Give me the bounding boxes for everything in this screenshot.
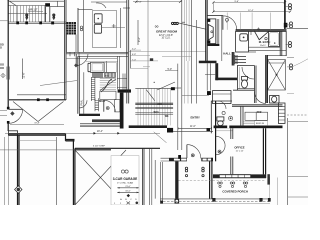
nook east line xyxy=(221,16,223,61)
wic shelves xyxy=(235,55,246,64)
fireplace trapezoid xyxy=(208,25,213,41)
chimney side lines down xyxy=(67,35,77,53)
left room west wall xyxy=(7,24,9,109)
ooo fixtures xyxy=(172,22,179,24)
hall door leaf top right xyxy=(222,16,224,30)
svg-text:BUILT-IN: BUILT-IN xyxy=(256,123,265,125)
hall top wall thick xyxy=(199,61,217,64)
west wall below door xyxy=(7,123,9,131)
hall south wall xyxy=(215,78,237,81)
sink 1 xyxy=(94,14,102,23)
kitchen island xyxy=(93,11,117,48)
dim ticks left of door xyxy=(0,110,7,115)
fireplace box xyxy=(207,19,215,44)
island right second line xyxy=(120,8,122,48)
bay2 inner line xyxy=(55,137,57,205)
powder toilet xyxy=(217,117,224,126)
powder room west walls xyxy=(210,101,212,133)
svg-text:7'-0": 7'-0" xyxy=(132,59,136,61)
dim extension verticals top right xyxy=(227,13,270,30)
laundry north wall xyxy=(232,105,283,107)
keynote diamond left edge xyxy=(1,73,6,78)
PAN label xyxy=(80,99,84,105)
entry door arc xyxy=(187,145,201,159)
locker ladder xyxy=(95,98,99,111)
linen shelf strip xyxy=(278,103,285,123)
wall between wc and closet xyxy=(266,55,268,103)
svg-text:9'-6": 9'-6" xyxy=(235,1,240,3)
svg-text:20'-4": 20'-4" xyxy=(97,131,103,133)
closet shelf lines right of hall wall xyxy=(131,50,159,68)
OO symbol xyxy=(121,170,124,173)
svg-text:ENTRY: ENTRY xyxy=(191,116,201,120)
vanity xyxy=(269,32,280,47)
left room south wall xyxy=(9,99,66,101)
office door keynote xyxy=(218,150,221,153)
svg-text:HALL: HALL xyxy=(223,51,231,55)
garage steps xyxy=(80,124,120,127)
laundry divider wall xyxy=(241,106,243,126)
small text right of pantry xyxy=(105,76,110,78)
porch roof dashed line xyxy=(179,179,266,181)
svg-text:W/D: W/D xyxy=(257,111,262,114)
stair south dark wall xyxy=(129,125,167,128)
pantry inner wall xyxy=(83,72,85,113)
svg-text:12'-4": 12'-4" xyxy=(248,10,254,12)
mud big door leaf xyxy=(103,100,105,112)
kitchen counter top edge xyxy=(78,9,92,11)
svg-text:22'-6": 22'-6" xyxy=(136,2,142,4)
vertical dim line in room xyxy=(22,59,24,80)
svg-text:OO: OO xyxy=(0,66,4,70)
svg-text:10' CLG.: 10' CLG. xyxy=(162,38,171,40)
thin line below door wall xyxy=(8,135,10,205)
top center dim line xyxy=(133,1,182,3)
keynote at door xyxy=(226,18,229,23)
kitchen west wall xyxy=(77,8,79,52)
kitchen right dim line xyxy=(147,0,149,88)
svg-text:11x12: 11x12 xyxy=(260,45,266,47)
leader to fireplace xyxy=(179,23,207,29)
right side dim lines xyxy=(287,118,289,205)
stair bottom posts xyxy=(16,21,54,24)
porch slab edge xyxy=(161,198,271,200)
stairs mid rails xyxy=(135,103,173,104)
powder/laundry south wall xyxy=(214,126,283,129)
wc west wall xyxy=(237,66,239,91)
svg-text:5'-2": 5'-2" xyxy=(132,49,136,51)
great room floor break xyxy=(129,51,206,53)
keynote diamond on garage wall xyxy=(15,186,22,193)
mud stairs rail arc xyxy=(101,79,112,92)
hall inner lines xyxy=(205,63,215,90)
bay2 top faint line xyxy=(19,140,56,142)
mbath north wall xyxy=(236,30,287,31)
cross mark xyxy=(112,24,116,28)
entry front wall with panes xyxy=(169,158,187,162)
top right dim lines xyxy=(213,2,285,11)
door arc bottom bath xyxy=(255,92,267,104)
chimney masonry block xyxy=(67,22,77,35)
svg-text:COVERED PORCH: COVERED PORCH xyxy=(222,190,248,194)
fireplace side wall xyxy=(217,19,219,46)
cross on wall xyxy=(257,28,260,31)
stair symbol 1 xyxy=(26,14,28,20)
wall post top middle xyxy=(45,3,50,6)
post left of powder wall xyxy=(207,128,211,131)
svg-text:PAN.: PAN. xyxy=(80,99,84,105)
wc walls xyxy=(255,66,257,104)
laundry counter xyxy=(245,112,268,120)
stair corner diagonal xyxy=(8,0,17,6)
bath south line ext xyxy=(248,51,256,53)
door knob dot xyxy=(154,82,155,83)
svg-text:14R·11T: 14R·11T xyxy=(28,8,38,11)
powder door arc xyxy=(76,54,88,66)
mud south wall band1 xyxy=(79,114,100,116)
keynote diamond at door xyxy=(10,111,14,115)
mud landing xyxy=(100,91,116,99)
entry wall west post xyxy=(178,155,181,159)
wc2 fixture xyxy=(270,96,280,104)
stairs upper-left treads xyxy=(8,6,66,24)
office west wall xyxy=(231,128,233,139)
wall left of stairs xyxy=(7,0,9,24)
powder door leaf xyxy=(75,54,77,65)
dim line far left xyxy=(4,137,6,205)
V ceiling lines xyxy=(13,102,64,122)
bath south lines xyxy=(248,47,286,50)
stairs corner post xyxy=(171,87,175,90)
garage north wall right part xyxy=(75,148,160,150)
porch divider wall xyxy=(210,158,212,199)
porch NE post xyxy=(267,174,270,184)
stair symbol 2 xyxy=(53,14,55,20)
bay2 west wall xyxy=(18,135,20,205)
hall corridor lines xyxy=(162,56,192,103)
range box xyxy=(91,62,105,72)
mud south wall band2 xyxy=(92,119,120,122)
wc door arc xyxy=(242,67,254,79)
powder keynote xyxy=(222,111,225,114)
nook bottom dark band xyxy=(207,44,219,46)
leader from sink xyxy=(101,27,125,29)
cubby boxes xyxy=(105,73,116,78)
keynote text left edge xyxy=(0,63,4,70)
powder north wall xyxy=(211,100,232,102)
W/D label xyxy=(257,111,262,114)
garage door X xyxy=(75,150,126,205)
garage wall black post xyxy=(167,128,173,133)
outlet by chimney xyxy=(80,26,82,31)
entry thick L wall top xyxy=(118,89,131,92)
entry dim line xyxy=(178,127,212,130)
leader in left room xyxy=(40,81,77,86)
faucet arc xyxy=(96,3,106,8)
keynote circle xyxy=(265,37,267,39)
built-in label box xyxy=(255,121,268,126)
east wall segment xyxy=(285,31,287,56)
NE outer wall xyxy=(284,0,286,29)
svg-text:3-CAR GARAGE: 3-CAR GARAGE xyxy=(113,177,138,181)
kitchen dim vline xyxy=(137,20,139,45)
mud stairs diagonal break xyxy=(100,79,116,91)
keynote in mud door xyxy=(106,107,109,110)
great room east wall xyxy=(205,0,207,62)
garage wall jog xyxy=(66,134,75,141)
porch west edge lines xyxy=(160,162,162,202)
office east wall xyxy=(263,128,265,178)
garage label box xyxy=(111,156,139,205)
left edge keynote block upper xyxy=(0,44,4,50)
shower xyxy=(236,31,249,52)
bath east wall xyxy=(280,31,282,56)
outlet symbols west porch xyxy=(185,167,204,177)
entry door leaf xyxy=(186,145,188,158)
porch slab posts xyxy=(160,198,270,204)
toilet xyxy=(242,77,248,89)
keynote diamond at powder xyxy=(74,63,78,67)
pantry west wall xyxy=(78,56,80,113)
sink 2 xyxy=(94,24,101,33)
counter lines below kitchen xyxy=(66,52,128,54)
porch west inner wall xyxy=(175,161,178,199)
svg-text:OO: OO xyxy=(155,27,159,29)
outlet symbols right column xyxy=(289,4,293,70)
corner box at garage NW xyxy=(8,131,17,135)
svg-text:12'-6": 12'-6" xyxy=(23,72,26,78)
hall east wall vertical xyxy=(215,63,218,80)
small mud arc xyxy=(79,100,87,108)
stairs leader xyxy=(146,90,155,101)
stair dim text xyxy=(28,8,38,11)
hall walls verticals xyxy=(118,56,125,89)
svg-text:6'-8": 6'-8" xyxy=(132,54,136,56)
shower side jog xyxy=(250,31,252,35)
closet post xyxy=(207,91,211,95)
left room east wall xyxy=(64,22,66,100)
keynote text kitchen xyxy=(155,27,159,29)
entry thick wall vertical xyxy=(120,93,124,129)
mud bench xyxy=(115,100,120,112)
outlet symbols office porch xyxy=(218,182,248,188)
svg-text:MUD: MUD xyxy=(99,99,105,103)
powder door arc xyxy=(218,101,226,109)
svg-text:4" CONC. SLAB: 4" CONC. SLAB xyxy=(117,182,133,185)
closet north line xyxy=(267,55,286,57)
leader tick xyxy=(182,21,186,23)
svg-text:16R: 16R xyxy=(157,103,162,106)
svg-text:11'-0": 11'-0" xyxy=(190,126,196,128)
svg-text:9'-2": 9'-2" xyxy=(138,37,141,42)
closet X box xyxy=(268,60,286,90)
hall dim text xyxy=(168,69,173,71)
svg-text:GREAT ROOM: GREAT ROOM xyxy=(156,29,178,33)
left edge tick xyxy=(0,20,8,22)
svg-text:OFFICE: OFFICE xyxy=(234,146,244,150)
porch west post with circle xyxy=(175,199,180,204)
wall right of stairs xyxy=(64,0,66,22)
garage north wall left xyxy=(8,134,65,135)
dim line above garage xyxy=(5,132,160,134)
entry side lines xyxy=(178,64,182,150)
powder sink xyxy=(229,116,233,120)
stair labels xyxy=(154,103,169,118)
svg-text:22'-6" x 19'-8": 22'-6" x 19'-8" xyxy=(159,35,173,37)
svg-text:11' x 12': 11' x 12' xyxy=(236,150,244,152)
faint text above garage xyxy=(93,146,106,148)
svg-text:W10: W10 xyxy=(154,111,160,114)
garage east walls xyxy=(143,148,145,205)
bottom faint line xyxy=(160,203,270,205)
range stub wall xyxy=(88,63,91,71)
NE wall line to edge xyxy=(287,27,309,29)
door lower-left arc xyxy=(9,109,23,123)
closet under hall xyxy=(213,91,232,104)
svg-text:O: O xyxy=(0,46,2,49)
entry door keynote xyxy=(191,154,194,157)
porch east thin lines xyxy=(270,178,278,206)
hall door arc xyxy=(223,16,237,30)
mud big door arc xyxy=(104,100,116,112)
svg-text:5 1/2" STEP: 5 1/2" STEP xyxy=(93,146,106,148)
door posts xyxy=(7,107,10,110)
pantry vertical shelf xyxy=(91,78,95,102)
header lines right of post xyxy=(8,1,64,6)
bath V niche xyxy=(254,31,268,40)
door lower-left leaf xyxy=(9,108,23,110)
window on west wall xyxy=(7,67,10,80)
office south window band xyxy=(213,173,266,175)
island top line xyxy=(91,1,126,3)
garage west wall xyxy=(73,140,75,205)
garage north wall extension line xyxy=(0,149,75,151)
main stairs treads xyxy=(138,88,170,125)
office double door arcs xyxy=(216,136,225,154)
great room west opening lines xyxy=(181,0,183,104)
posts on south wall xyxy=(37,98,40,101)
pantry hatch top xyxy=(91,72,103,77)
wall above fireplace arc xyxy=(207,14,223,16)
mud stairs treads xyxy=(100,78,116,91)
svg-text:19'-8": 19'-8" xyxy=(34,123,40,125)
